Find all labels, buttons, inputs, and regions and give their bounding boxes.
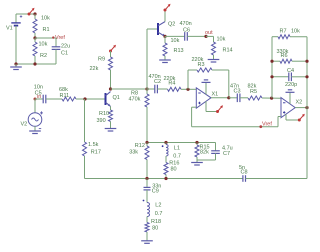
svg-text:390: 390 [97, 118, 106, 124]
svg-text:10k: 10k [217, 37, 226, 43]
node junction [305, 60, 308, 63]
svg-text:Vref: Vref [262, 121, 272, 127]
resistor R2 [33, 38, 48, 64]
svg-text:R5: R5 [250, 89, 257, 95]
svg-text:out: out [205, 30, 213, 36]
node junction [33, 36, 36, 39]
source V2 [21, 111, 44, 128]
resistor R12 [129, 143, 149, 179]
capacitor C5 [34, 84, 62, 103]
capacitor C4 [272, 68, 307, 88]
resistor R9 [90, 51, 113, 89]
svg-text:C6: C6 [183, 28, 190, 34]
capacitor C8 [239, 165, 248, 182]
power symbol [109, 45, 116, 53]
resistor R18 [145, 219, 161, 238]
svg-text:10k: 10k [291, 28, 300, 34]
capacitor C1 [52, 38, 70, 64]
svg-text:C3: C3 [234, 89, 241, 95]
op-amp X2 [281, 98, 302, 118]
wire [306, 37, 308, 108]
node junction [186, 88, 189, 91]
svg-text:R6: R6 [281, 53, 288, 59]
node junction [145, 177, 148, 180]
svg-text:82k: 82k [200, 149, 209, 155]
node junction [164, 141, 167, 144]
svg-text:C5: C5 [35, 90, 42, 96]
ground [141, 238, 153, 243]
resistor R13 [163, 36, 184, 59]
wire [35, 37, 56, 39]
svg-text:22k: 22k [90, 66, 99, 72]
resistor R7 [272, 28, 307, 38]
svg-text:R18: R18 [151, 219, 161, 225]
wire [111, 88, 148, 90]
svg-text:Vref: Vref [55, 35, 65, 41]
svg-text:C1: C1 [61, 51, 68, 57]
svg-text:Q1: Q1 [113, 95, 120, 101]
resistor R11 [59, 87, 105, 101]
node junction [305, 106, 308, 109]
node junction [195, 141, 198, 144]
wire [34, 99, 36, 113]
svg-text:C9: C9 [152, 189, 159, 195]
wire [278, 117, 281, 127]
wire [147, 142, 216, 144]
wire [85, 178, 243, 180]
node junction [145, 87, 148, 90]
node junction [33, 62, 36, 65]
svg-text:10k: 10k [171, 38, 180, 44]
svg-text:C8: C8 [241, 170, 248, 176]
wire [147, 28, 158, 30]
resistor R1 [33, 14, 50, 38]
wire [16, 13, 35, 15]
svg-text:R17: R17 [91, 150, 101, 156]
power symbol [206, 101, 223, 113]
svg-text:R8: R8 [131, 90, 138, 96]
svg-text:470k: 470k [129, 97, 141, 103]
capacitor C9 [144, 179, 162, 203]
resistor R14 [206, 36, 233, 58]
svg-text:10k: 10k [39, 42, 48, 48]
node junction [83, 97, 86, 100]
resistor R4 [164, 76, 197, 91]
ground [286, 90, 295, 104]
svg-text:R12: R12 [135, 143, 145, 149]
resistor R10 [97, 106, 113, 125]
svg-text:Q2: Q2 [168, 22, 175, 28]
node junction [14, 62, 17, 65]
node junction [270, 97, 273, 100]
svg-text:R11: R11 [60, 93, 70, 99]
svg-text:R10: R10 [99, 111, 109, 117]
svg-text:33k: 33k [129, 149, 138, 155]
node junction [163, 35, 166, 38]
svg-text:80: 80 [171, 167, 177, 173]
node Vref label [259, 121, 272, 128]
battery V1 [6, 14, 22, 64]
node junction [109, 87, 112, 90]
resistor R8 [129, 89, 150, 143]
inductor L1 [162, 143, 181, 160]
capacitor C2 [147, 74, 168, 94]
node junction [270, 75, 273, 78]
svg-text:470n: 470n [180, 21, 192, 27]
capacitor C6 [165, 21, 206, 41]
svg-text:L1: L1 [174, 145, 180, 151]
capacitor C7 [197, 143, 233, 161]
ground [10, 64, 22, 70]
node in label [34, 94, 42, 101]
node junction [145, 141, 148, 144]
net Vref wire [192, 126, 278, 128]
ground [105, 126, 117, 132]
ground [191, 161, 203, 166]
transistor Q1 [106, 92, 120, 107]
ground [202, 80, 211, 95]
wire [192, 107, 197, 127]
svg-text:V2: V2 [21, 122, 28, 128]
svg-text:22u: 22u [61, 44, 70, 50]
node junction [164, 177, 167, 180]
svg-text:R4: R4 [168, 81, 175, 87]
node junction [270, 60, 273, 63]
svg-text:10k: 10k [41, 16, 50, 22]
svg-text:C4: C4 [287, 68, 294, 74]
svg-text:R14: R14 [223, 48, 233, 54]
svg-text:R9: R9 [98, 56, 105, 62]
svg-text:L2: L2 [155, 203, 161, 209]
capacitor C3 [229, 83, 248, 102]
ground [208, 58, 220, 62]
wire [306, 108, 308, 179]
svg-text:220p: 220p [285, 82, 297, 88]
svg-text:80: 80 [152, 225, 158, 231]
power symbol [164, 4, 171, 12]
svg-text:R1: R1 [43, 27, 50, 33]
node out label [204, 30, 213, 38]
power symbol [28, 8, 35, 16]
ground [29, 128, 41, 134]
node Vref label [52, 35, 65, 41]
svg-text:0.7: 0.7 [155, 211, 163, 217]
wire [246, 178, 308, 180]
node junction [33, 12, 36, 15]
wire [146, 29, 148, 89]
svg-text:R2: R2 [40, 53, 47, 59]
power symbol [286, 114, 305, 122]
wire [271, 37, 273, 98]
resistor R6 [272, 49, 307, 63]
wire [164, 10, 166, 22]
svg-text:X2: X2 [296, 100, 303, 106]
node junction [227, 96, 230, 99]
transistor Q2 [158, 22, 175, 37]
svg-text:C7: C7 [223, 151, 230, 157]
svg-text:V1: V1 [6, 26, 13, 32]
resistor R15 [195, 143, 210, 161]
resistor R3 [188, 57, 229, 98]
ground [159, 59, 171, 63]
svg-text:0.7: 0.7 [173, 153, 181, 159]
resistor R5 [248, 84, 282, 100]
svg-text:R7: R7 [280, 28, 287, 34]
wire [16, 63, 56, 65]
resistor R17 [83, 99, 101, 179]
svg-text:1.5k: 1.5k [88, 142, 99, 148]
resistor R16 [164, 156, 179, 179]
svg-text:X1: X1 [212, 92, 219, 98]
inductor L2 [143, 200, 163, 223]
wire [211, 97, 229, 99]
wire [295, 107, 307, 109]
svg-text:R13: R13 [174, 48, 184, 54]
svg-text:C2: C2 [154, 79, 161, 85]
op-amp X1 [196, 88, 218, 108]
node junction [305, 75, 308, 78]
svg-text:R3: R3 [198, 62, 205, 68]
